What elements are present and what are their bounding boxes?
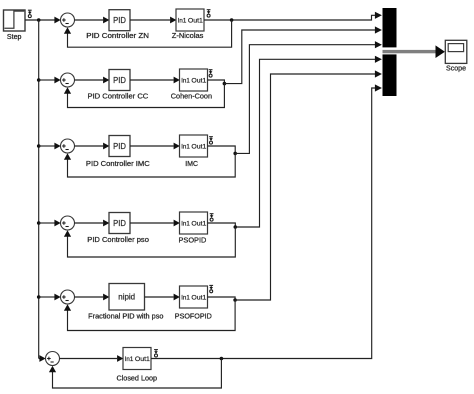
wire controller to subsystem row3 — [130, 143, 180, 150]
logging badge row1 subsystem output — [207, 10, 211, 17]
svg-text:Closed Loop: Closed Loop — [117, 375, 158, 382]
wire Closed Loop output to Mux in6 — [151, 84, 382, 358]
svg-text:PSOPID: PSOPID — [179, 238, 207, 245]
wire controller to subsystem row1 — [130, 17, 176, 24]
subsystem block row4 (In1 Out1) — [180, 212, 208, 234]
node trunk junction row3 — [37, 144, 41, 148]
svg-text:Out1: Out1 — [191, 78, 206, 85]
wire Sum6 to Closed Loop subsystem — [60, 355, 124, 362]
svg-text:Step: Step — [7, 34, 22, 41]
svg-text:Out1: Out1 — [135, 356, 150, 363]
wire controller to subsystem row4 — [130, 220, 180, 227]
svg-text:Z-Nicolas: Z-Nicolas — [172, 33, 204, 40]
svg-text:PID Controller pso: PID Controller pso — [87, 237, 149, 244]
controller block PID row2 — [109, 70, 130, 91]
node feedback tap row5 — [233, 298, 237, 302]
source block Step — [4, 10, 26, 31]
wire feedback loop row6 — [49, 359, 222, 389]
svg-text:PID: PID — [113, 218, 126, 228]
node feedback tap row2 — [223, 82, 227, 86]
wire subsystem output jog row5 — [208, 297, 236, 300]
wire Sum3 to PID block — [75, 143, 110, 150]
wire feedback loop row3 — [64, 153, 235, 177]
mux output port band — [383, 47, 397, 54]
svg-text:In1: In1 — [181, 78, 190, 85]
node trunk junction row1 — [37, 18, 41, 22]
subsystem block row1 (In1 Out1) — [176, 9, 204, 31]
mux block — [383, 8, 397, 96]
node feedback tap row3 — [233, 152, 237, 156]
svg-text:PID: PID — [113, 75, 126, 85]
logging badge on Step output — [28, 10, 32, 17]
wire controller to subsystem row5 — [145, 294, 180, 301]
svg-text:nipid: nipid — [118, 293, 135, 302]
svg-text:PID: PID — [113, 15, 126, 25]
logging badge row6 subsystem output — [154, 350, 158, 357]
sum junction Sum3 — [61, 139, 75, 153]
controller block nipid (fractional PID) — [109, 284, 145, 311]
svg-text:PSOFOPID: PSOFOPID — [175, 314, 212, 321]
svg-text:IMC: IMC — [185, 161, 198, 168]
wire subsystem output jog row2 — [208, 80, 225, 84]
wire feedback loop row4 — [64, 227, 235, 257]
svg-text:In1: In1 — [181, 221, 190, 228]
svg-text:Cohen-Coon: Cohen-Coon — [171, 94, 212, 101]
controller block PID row4 — [109, 213, 130, 234]
logging badge row2 subsystem output — [209, 70, 213, 77]
controller block PID row3 — [109, 136, 130, 157]
wire trunk vertical — [38, 20, 40, 359]
wire Mux to Scope (vector line) — [383, 45, 445, 58]
wire Step output to Sum1 — [25, 17, 61, 24]
logging badge row5 subsystem output — [209, 285, 213, 292]
subsystem block row6 (In1 Out1) — [123, 348, 151, 370]
wire feedback loop row1 — [64, 20, 232, 47]
svg-text:PID Controller IMC: PID Controller IMC — [86, 161, 150, 168]
subsystem block row2 (In1 Out1) — [180, 69, 208, 91]
wire controller to subsystem row2 — [130, 77, 180, 84]
subsystem block row5 (In1 Out1) — [180, 286, 208, 308]
wire trunk branch to Sum2 — [39, 77, 61, 84]
node trunk junction row4 — [37, 221, 41, 225]
node feedback tap row1 — [230, 18, 234, 22]
wire to Mux in5 riser — [235, 70, 382, 300]
wire Z-Nicolas output to Mux in1 (with jog) — [204, 12, 382, 20]
logging badge row3 subsystem output — [209, 137, 213, 144]
logging badge row4 subsystem output — [210, 214, 214, 221]
svg-text:In1: In1 — [181, 295, 190, 302]
node trunk junction row2 — [37, 78, 41, 82]
svg-text:Out1: Out1 — [191, 221, 206, 228]
svg-text:Fractional PID with pso: Fractional PID with pso — [88, 314, 163, 321]
wire feedback loop row5 — [64, 300, 235, 331]
node feedback tap row6 — [220, 357, 224, 361]
sum junction Sum6 — [46, 352, 60, 366]
wire to Mux in2 riser — [224, 26, 382, 83]
sum junction Sum5 — [61, 290, 75, 304]
wire Sum1 to PID block — [75, 17, 110, 24]
svg-text:Out1: Out1 — [191, 295, 206, 302]
wire to Mux in4 riser — [235, 56, 382, 227]
svg-text:In1: In1 — [178, 18, 187, 25]
svg-text:Out1: Out1 — [188, 18, 203, 25]
node feedback tap row4 — [234, 225, 238, 229]
svg-text:Out1: Out1 — [191, 144, 206, 151]
wire trunk branch to Sum5 — [39, 294, 61, 301]
sum junction Sum2 — [61, 73, 75, 87]
svg-text:PID: PID — [113, 141, 126, 151]
controller block PID row1 — [109, 10, 130, 31]
wire Sum2 to PID block — [75, 77, 110, 84]
wire feedback loop row2 — [64, 84, 225, 108]
wire trunk branch to Sum4 — [39, 220, 61, 227]
wire Sum5 to nipid block — [75, 294, 110, 301]
sum junction Sum4 — [61, 216, 75, 230]
svg-text:In1: In1 — [125, 356, 134, 363]
wire subsystem output jog row4 — [208, 223, 236, 227]
scope block — [445, 40, 467, 63]
node trunk junction row5 — [37, 295, 41, 299]
svg-text:Scope: Scope — [446, 66, 466, 73]
wire to Mux in3 riser — [235, 41, 382, 153]
svg-text:PID Controller ZN: PID Controller ZN — [86, 33, 149, 40]
wire trunk bend to Sum6 — [39, 355, 46, 362]
wire subsystem output jog row3 — [208, 146, 236, 153]
subsystem block row3 (In1 Out1) — [180, 135, 208, 157]
wire Sum4 to PID block — [75, 220, 110, 227]
svg-text:In1: In1 — [181, 144, 190, 151]
svg-text:PID Controller CC: PID Controller CC — [88, 94, 149, 101]
wire trunk branch to Sum3 — [39, 143, 61, 150]
sum junction Sum1 — [61, 13, 75, 27]
